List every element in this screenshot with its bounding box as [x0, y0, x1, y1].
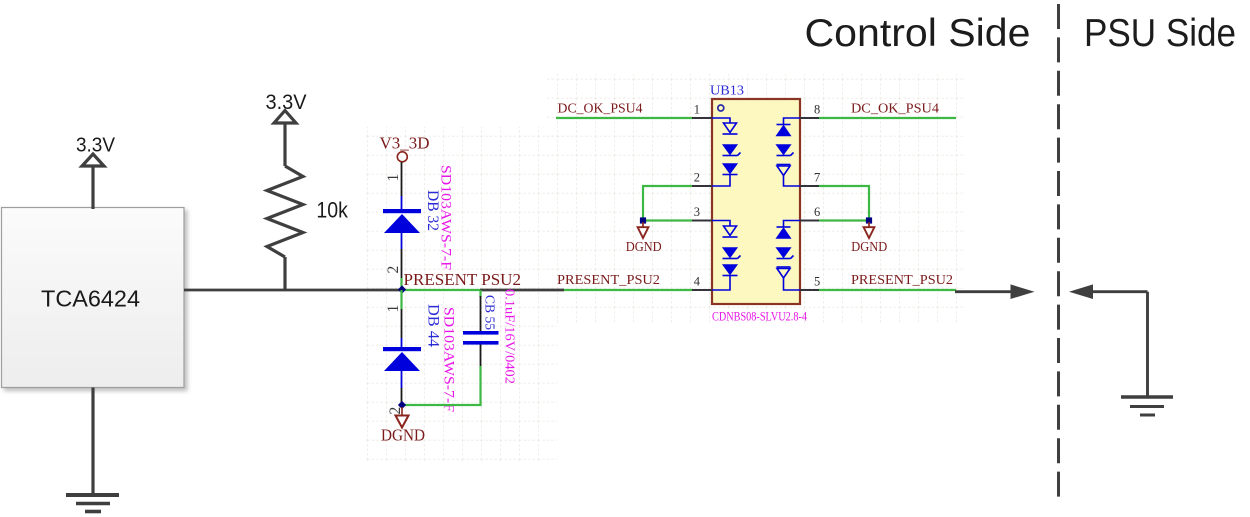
ic UB13 body: [712, 99, 800, 304]
wire U1 output to node A: [184, 289, 402, 292]
pin 2 of CB55 (wire): [480, 345, 482, 368]
svg-text:DGND: DGND: [626, 239, 662, 254]
wire DC_OK_PSU4 left (green): [556, 117, 693, 119]
svg-text:PSU Side: PSU Side: [1084, 12, 1236, 55]
power port DGND stub (right of UB13): [868, 222, 870, 228]
wire pin3 to junction (green): [643, 219, 692, 221]
svg-text:0.1uF/16V/0402: 0.1uF/16V/0402: [502, 289, 517, 384]
svg-text:DC_OK_PSU4: DC_OK_PSU4: [558, 101, 643, 116]
diode DB32 cathode bar: [383, 209, 421, 213]
arrowhead control side: [1011, 284, 1035, 299]
wire resistor to main net: [283, 257, 286, 291]
pin 1 of UB13: [692, 117, 712, 119]
wire 3.3V to resistor: [283, 123, 286, 166]
power port DGND triangle (left snippet): [396, 416, 409, 428]
wire PRESENT_PSU2 to control-side arrow: [955, 290, 1012, 293]
tvs stack channel D (pins 6-5): [777, 221, 801, 291]
svg-text:PRESENT_PSU2: PRESENT_PSU2: [851, 272, 953, 287]
diode DB44 cathode wire: [401, 338, 403, 347]
wire pin2 left then down (green): [643, 186, 692, 221]
svg-text:1: 1: [385, 305, 402, 313]
arrowhead psu side: [1069, 284, 1093, 299]
svg-text:PRESENT_PSU2: PRESENT_PSU2: [557, 272, 660, 287]
power port DGND triangle (right of UB13): [864, 227, 875, 238]
ic UB13 pin1 marker circle: [718, 105, 724, 111]
wire node A to cap branch (green): [402, 289, 481, 291]
diode DB44 triangle: [384, 352, 420, 371]
pin 1 of DB32 (wire): [401, 162, 403, 196]
svg-text:DGND: DGND: [851, 239, 887, 254]
wire pin7 right then down (green): [819, 186, 869, 221]
svg-text:8: 8: [814, 103, 820, 117]
pin 1 of CB55 (wire): [480, 296, 482, 331]
wire psu side vertical: [1146, 292, 1149, 396]
schematic grid right snippet: [545, 74, 963, 323]
svg-text:CB 55: CB 55: [483, 295, 498, 330]
svg-text:DB 44: DB 44: [425, 304, 442, 347]
power port DGND triangle (left of UB13): [638, 227, 649, 238]
ic U1 TCA6424 body: [2, 208, 185, 388]
diode DB32 triangle: [384, 214, 420, 233]
wire U1 to ground: [91, 388, 94, 496]
diode DB32 anode wire: [401, 233, 403, 249]
dashed divider line: [1057, 4, 1060, 500]
ground symbol (left): [66, 495, 119, 512]
svg-text:5: 5: [814, 275, 820, 289]
pin 7 of UB13: [800, 185, 820, 187]
power 3.3V symbol (resistor): [274, 111, 296, 124]
power port DGND stub (left of UB13): [642, 222, 644, 228]
pin 4 of UB13: [692, 289, 712, 291]
svg-text:SD103AWS-7-F: SD103AWS-7-F: [438, 165, 454, 270]
svg-text:DC_OK_PSU4: DC_OK_PSU4: [851, 101, 939, 116]
wire bottom rail (green): [402, 404, 482, 406]
power port DGND stub (left snippet): [401, 407, 403, 416]
pin 2 of DB44 (wire): [401, 388, 403, 405]
svg-text:DGND: DGND: [381, 426, 425, 445]
junction DGND right: [866, 217, 872, 223]
svg-text:7: 7: [814, 171, 820, 185]
svg-text:Control Side: Control Side: [805, 12, 1031, 55]
wire DC_OK_PSU4 right (green): [819, 117, 956, 119]
svg-text:SD103AWS-7-F: SD103AWS-7-F: [441, 307, 457, 412]
junction node B (DB44 anode / cap rail): [398, 401, 406, 409]
ground symbol (psu side): [1121, 397, 1173, 415]
pin 3 of UB13: [692, 219, 712, 221]
svg-text:10k: 10k: [316, 198, 348, 223]
pin 5 of UB13: [800, 289, 820, 291]
tvs stack channel B (pins 8-7): [777, 118, 801, 186]
pin 6 of UB13: [800, 219, 820, 221]
junction DGND left: [640, 217, 646, 223]
wire PRESENT_PSU2 right (green): [819, 289, 956, 291]
power port V3_3D circle: [397, 152, 407, 162]
resistor R1 10k zigzag: [267, 166, 303, 257]
svg-text:1: 1: [694, 103, 700, 117]
svg-text:UB13: UB13: [710, 84, 744, 99]
pin 1 of DB44 (wire): [401, 309, 403, 338]
power 3.3V symbol (left): [82, 154, 104, 166]
diode DB44 cathode bar: [383, 347, 421, 351]
svg-text:6: 6: [814, 205, 820, 219]
svg-text:3.3V: 3.3V: [76, 134, 115, 157]
svg-text:3: 3: [694, 205, 700, 219]
capacitor CB55 top plate: [463, 331, 499, 335]
svg-text:PRESENT PSU2: PRESENT PSU2: [404, 270, 522, 289]
pin 2 of UB13: [692, 185, 712, 187]
wire pin6 to junction (green): [819, 219, 869, 221]
wire node A down to DB44 (green): [400, 290, 402, 309]
wire DB32 to node A (green): [400, 278, 402, 290]
svg-text:2: 2: [694, 171, 700, 185]
svg-text:TCA6424: TCA6424: [41, 286, 140, 312]
wire cap branch down (green): [479, 290, 481, 297]
wire 3.3V to U1: [91, 166, 94, 209]
svg-text:CDNBS08-SLVU2.8-4: CDNBS08-SLVU2.8-4: [712, 310, 808, 324]
wire PRESENT_PSU2 left (green): [564, 289, 693, 291]
pin 8 of UB13: [800, 117, 820, 119]
schematic grid left snippet: [364, 127, 557, 462]
pin 2 of DB32 (wire): [401, 249, 403, 278]
capacitor CB55 bottom plate: [463, 341, 499, 345]
wire cap to bottom rail (green): [479, 366, 481, 405]
svg-text:V3_3D: V3_3D: [380, 134, 430, 153]
tvs stack channel C (pins 3-4): [712, 221, 741, 291]
tvs stack channel A (pins 1-2): [712, 118, 741, 186]
svg-text:4: 4: [694, 275, 701, 289]
svg-text:1: 1: [385, 174, 402, 182]
wire cap branch to snippet edge: [480, 289, 564, 292]
diode DB44 anode wire: [401, 371, 403, 388]
svg-text:2: 2: [385, 266, 402, 274]
diode DB32 cathode wire: [401, 196, 403, 209]
junction node A: [398, 285, 406, 293]
wire psu side horizontal: [1092, 290, 1148, 293]
